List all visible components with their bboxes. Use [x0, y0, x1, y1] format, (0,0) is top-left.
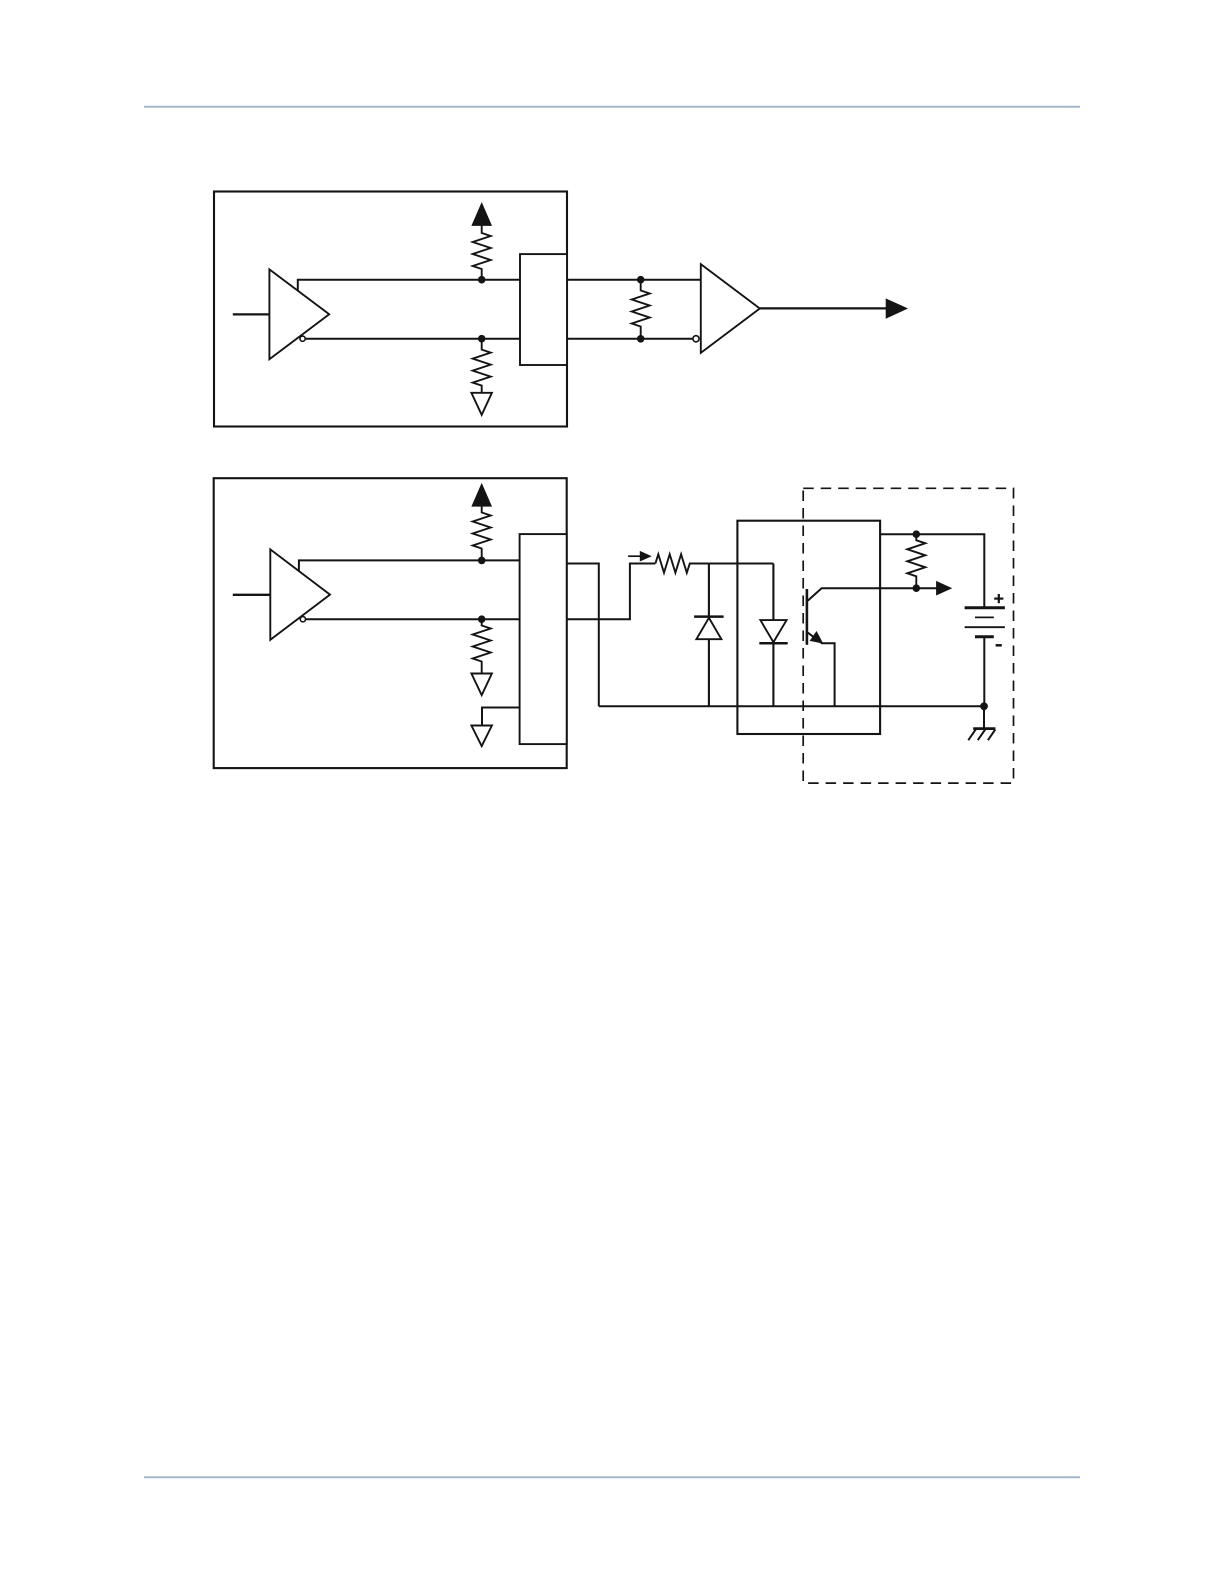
resistor R termination [632, 280, 650, 339]
arrowhead: receiver output [886, 299, 907, 318]
wire: driver input stub (bottom figure) [233, 594, 270, 596]
receiver amplifier U2 [701, 264, 760, 353]
arrowhead: emitter [811, 632, 823, 643]
connector block (bottom figure) [520, 534, 567, 744]
phototransistor Q1 collector [808, 588, 937, 601]
resistor R load (opto pull-up) [907, 534, 925, 588]
battery BT1 plate positive long [965, 606, 1005, 609]
wire: driver input stub [233, 313, 270, 315]
wire: inverting output to connector [306, 338, 520, 340]
optocoupler LED D2 [772, 564, 774, 621]
current direction arrow [628, 555, 641, 557]
driver IC boundary box (bottom figure) [214, 478, 567, 768]
driver amplifier U3 [270, 549, 330, 639]
junction: pull-up to line A (bottom figure) [478, 557, 486, 565]
wire: line A connector to receiver [567, 279, 701, 281]
battery BT1 plate short thin [975, 616, 994, 618]
wire: non-inverting output jog (bottom figure) [299, 560, 520, 571]
wire: non-inverting output jog [298, 280, 520, 291]
label: battery plus [994, 597, 1003, 599]
inverting bubble on receiver input [693, 336, 699, 342]
junction: termination bottom [637, 335, 645, 343]
wire: anode node to LED [709, 563, 774, 565]
diode D1 (reverse protection) [708, 564, 710, 618]
dashed field-side boundary box [803, 488, 1013, 783]
wire: receiver output [760, 307, 886, 309]
wire: connector ground stub [482, 708, 520, 726]
junction: pull-down to line B [478, 335, 486, 343]
power arrow (pull-up supply, top figure) [473, 204, 491, 225]
junction: pull-down to line B (bottom figure) [478, 615, 486, 623]
junction: supply node [913, 530, 921, 538]
resistor R pull-down (top figure) [473, 339, 491, 393]
header rule [144, 106, 1080, 108]
ground arrow (pull-down, bottom figure) [471, 674, 492, 696]
driver IC boundary box (top figure) [214, 192, 567, 427]
wire: line A from connector down to return rail [567, 564, 599, 707]
ground arrow (connector shield) [471, 726, 492, 747]
junction: termination top [637, 276, 645, 284]
footer rule [144, 1476, 1080, 1478]
battery BT1 plate negative short [975, 635, 994, 638]
connector block (top figure) [520, 254, 567, 365]
power arrow (pull-up supply, bottom figure) [473, 485, 491, 506]
wire: ground drop [983, 706, 985, 728]
wire: battery negative to rail [983, 637, 985, 707]
resistor R pull-down (bottom figure) [473, 619, 491, 673]
wire: return rail [599, 705, 984, 707]
wire: line B from connector up to current resistor [567, 564, 656, 620]
optocoupler body U4 [737, 521, 880, 734]
arrowhead: output signal [937, 582, 951, 595]
driver amplifier U1 [269, 269, 329, 359]
junction: rail to ground [980, 702, 988, 710]
junction: collector node [913, 584, 921, 592]
inverting bubble on driver output (bottom figure) [300, 617, 305, 622]
wire: supply rail to battery [880, 534, 984, 608]
phototransistor Q1 base bar [806, 589, 809, 645]
label: battery minus [996, 644, 1002, 647]
wire: inverting output to connector (bottom figure) [306, 618, 520, 620]
resistor R pull-up (bottom figure) [473, 506, 491, 561]
inverting bubble on driver output [300, 336, 305, 341]
ground arrow (pull-down, top figure) [471, 393, 492, 415]
resistor R pull-up (top figure) [473, 225, 491, 280]
phototransistor Q1 emitter [808, 633, 835, 707]
battery BT1 plate long thin [965, 626, 1005, 628]
ground symbol [973, 727, 995, 730]
wire: line B connector to receiver bubble [567, 338, 693, 340]
junction: pull-up to line A [478, 276, 486, 284]
resistor R current-limit (horizontal) [655, 554, 709, 573]
